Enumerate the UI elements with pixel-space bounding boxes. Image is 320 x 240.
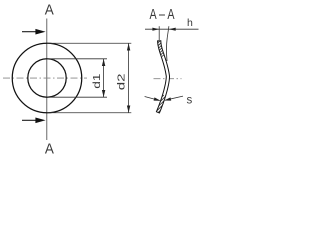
extension line d1 bottom: [47, 96, 107, 98]
washer inner circle d1: [28, 59, 66, 97]
dimension line d2: [128, 43, 130, 113]
svg-text:d2: d2: [115, 73, 127, 90]
dimension s leader right: [165, 96, 183, 100]
extension line d2 bottom: [47, 112, 131, 114]
svg-text:s: s: [187, 95, 193, 107]
washer outer circle d2: [12, 43, 82, 113]
extension line d2 top: [47, 42, 131, 44]
wire horizontal centerline left view: [3, 77, 87, 79]
svg-text:A – A: A – A: [150, 6, 176, 23]
section arrow bottom: [22, 119, 37, 121]
extension tick h left: [158, 26, 160, 40]
hatching section band: [136, 38, 188, 113]
back edge contour line: [165, 38, 168, 61]
washer section band: [156, 41, 169, 113]
dimension line d1: [103, 59, 105, 97]
extension tick h right: [167, 26, 169, 38]
extension line d1 top: [47, 58, 107, 60]
dimension h line: [145, 28, 199, 30]
section arrow top: [22, 31, 37, 33]
dimension s leader left: [145, 97, 160, 101]
wire horizontal centerline section view: [154, 78, 182, 80]
svg-text:A: A: [45, 140, 55, 155]
wire section line A-A vertical: [46, 19, 48, 141]
svg-text:A: A: [45, 1, 55, 18]
svg-text:d1: d1: [91, 73, 103, 88]
svg-text:h: h: [187, 17, 193, 29]
